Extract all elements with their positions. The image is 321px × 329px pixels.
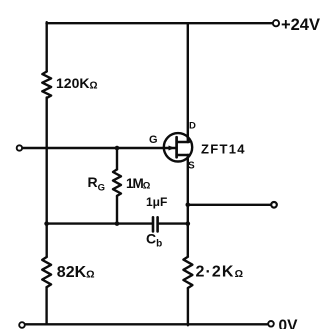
svg-text:0V: 0V xyxy=(279,317,299,329)
svg-text:120KΩ: 120KΩ xyxy=(56,75,98,92)
svg-text:2·2KΩ: 2·2KΩ xyxy=(196,264,245,281)
svg-text:1μF: 1μF xyxy=(146,195,167,209)
svg-text:S: S xyxy=(188,160,195,171)
svg-text:82KΩ: 82KΩ xyxy=(57,264,95,281)
svg-text:1MΩ: 1MΩ xyxy=(126,176,151,192)
svg-text:G: G xyxy=(149,134,158,146)
svg-text:ZFT14: ZFT14 xyxy=(201,141,246,156)
svg-text:D: D xyxy=(189,121,196,132)
svg-text:+24V: +24V xyxy=(281,16,320,34)
svg-text:RG: RG xyxy=(88,174,106,194)
svg-text:Cb: Cb xyxy=(146,230,162,249)
